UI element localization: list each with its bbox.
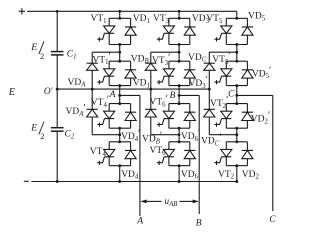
junction dots phase A bus xyxy=(118,10,121,183)
svg-text:VD2′: VD2′ xyxy=(251,111,270,126)
wire bottom DC rail (-) xyxy=(31,181,236,183)
wire cell frame VT2' phase C row3 xyxy=(226,103,247,105)
transistor VT4' xyxy=(97,104,115,129)
svg-text:VT2: VT2 xyxy=(218,170,235,181)
diode VD3 xyxy=(184,18,195,44)
svg-text:B: B xyxy=(196,219,202,229)
clamp diode VDA' xyxy=(87,89,98,135)
svg-text:VDA: VDA xyxy=(68,78,87,89)
transistor VT1 xyxy=(97,18,115,44)
wire cell frame VT4' phase A row3 xyxy=(109,103,130,105)
svg-text:VT4: VT4 xyxy=(90,147,107,158)
svg-text:VT2′: VT2′ xyxy=(210,95,228,110)
wire output line A vertical xyxy=(139,95,141,216)
svg-text:VDB: VDB xyxy=(131,54,149,65)
wire phase A bus segment rail to VT row1 xyxy=(119,11,121,18)
clamp diode VDA xyxy=(87,52,98,89)
wire output node B horizontal xyxy=(179,94,199,96)
svg-text:uAB: uAB xyxy=(164,197,177,208)
wire cell frame VT1 phase A row1 xyxy=(109,17,130,19)
svg-text:VT5: VT5 xyxy=(206,14,223,25)
svg-text:VDA′: VDA′ xyxy=(66,103,86,118)
svg-text:A: A xyxy=(109,90,116,100)
svg-text:VT1: VT1 xyxy=(91,14,107,25)
diode VD4 xyxy=(125,142,136,166)
svg-text:E: E xyxy=(30,43,37,53)
svg-text:VD2: VD2 xyxy=(242,170,260,181)
transistor VT2' xyxy=(214,104,232,129)
svg-text:VDB′: VDB′ xyxy=(142,131,162,146)
diode VD2' xyxy=(242,104,253,129)
transistor VT1' xyxy=(97,61,115,85)
junction dot left branch top rail xyxy=(56,10,59,13)
transistor VT3 xyxy=(157,18,175,44)
clamp diode VDC' xyxy=(204,89,215,135)
wire phase A bus segment row1 to row2 xyxy=(119,45,121,62)
diode VD6' xyxy=(184,104,195,129)
svg-text:C1: C1 xyxy=(67,50,77,61)
wire neutral line from node O' to clamp branches xyxy=(57,88,209,90)
svg-text:VD6′: VD6′ xyxy=(181,128,200,143)
junction dot left branch bottom rail xyxy=(56,180,59,183)
wire cell frame VT4 phase A row4 xyxy=(109,141,130,143)
svg-text:VDC: VDC xyxy=(188,53,207,64)
wire phase B bus segment row4 to bottom rail xyxy=(178,166,180,182)
svg-text:VT3: VT3 xyxy=(153,14,170,25)
wire clamp connection lower phase B xyxy=(151,134,179,136)
svg-text:2: 2 xyxy=(40,51,44,61)
svg-text:VD6: VD6 xyxy=(181,170,199,181)
svg-text:VD1: VD1 xyxy=(133,14,150,25)
svg-text:VD3′: VD3′ xyxy=(189,75,208,90)
dimension arrow for u_AB (left) xyxy=(146,200,161,202)
svg-text:VD4: VD4 xyxy=(121,170,139,181)
wire phase B bus segment row3 to row4 xyxy=(178,128,180,142)
wire output line C vertical xyxy=(272,95,274,211)
wire clamp connection upper phase A xyxy=(92,51,120,53)
diode VD5 xyxy=(242,18,253,44)
clamp diode VDB' xyxy=(145,89,156,135)
wire phase C bus segment rail to VT row1 xyxy=(236,11,238,18)
wire cell frame VT1' phase A row2 xyxy=(109,60,130,62)
svg-text:E: E xyxy=(8,87,15,98)
svg-text:2: 2 xyxy=(40,131,44,141)
capacitor C2 xyxy=(51,127,64,129)
diode VD2 xyxy=(242,142,253,166)
transistor VT5' xyxy=(214,61,232,85)
wire cell frame VT3' phase B row2 xyxy=(169,60,190,62)
minus terminal of DC source E xyxy=(24,180,29,182)
wire cell frame VT6 phase B row4 xyxy=(169,141,190,143)
dimension arrow for u_AB (right) xyxy=(179,200,193,202)
junction dots phase C bus xyxy=(235,17,238,183)
wire phase C bus segment row2 to row3 xyxy=(236,86,238,104)
svg-text:VT3′: VT3′ xyxy=(152,52,170,67)
wire cell frame VT6' phase B row3 xyxy=(169,103,190,105)
diode VD1' xyxy=(125,61,136,85)
wire phase C bus segment row4 to bottom rail xyxy=(236,166,238,182)
svg-text:A: A xyxy=(136,217,143,227)
transistor VT5 xyxy=(214,18,232,44)
wire cell frame VT5 phase C row1 xyxy=(226,17,247,19)
svg-text:VT6: VT6 xyxy=(150,146,167,157)
wire clamp connection upper phase B xyxy=(151,51,179,53)
transistor VT2 xyxy=(214,142,232,166)
junction dots on neutral O' line xyxy=(56,88,211,91)
svg-text:VT6′: VT6′ xyxy=(150,94,168,109)
transistor VT6' xyxy=(157,104,175,129)
wire cell frame VT5' phase C row2 xyxy=(226,60,247,62)
wire clamp connection lower phase A xyxy=(92,134,120,136)
wire phase B bus segment row2 to row3 xyxy=(178,86,180,104)
svg-text:C: C xyxy=(269,215,276,225)
svg-text:VT1′: VT1′ xyxy=(92,52,110,67)
wire clamp connection lower phase C xyxy=(209,134,237,136)
wire output line B vertical xyxy=(198,95,200,214)
svg-text:O′: O′ xyxy=(44,87,54,97)
svg-text:VT5′: VT5′ xyxy=(212,51,230,66)
wire phase B bus segment row1 to row2 xyxy=(178,45,180,62)
transistor VT4 xyxy=(97,142,115,166)
svg-text:C: C xyxy=(228,90,235,100)
svg-text:VD5: VD5 xyxy=(248,12,266,23)
wire output node C horizontal xyxy=(237,94,273,96)
transistor VT6 xyxy=(157,142,175,166)
wire phase C bus segment row3 to row4 xyxy=(236,128,238,142)
wire phase A bus segment row4 to bottom rail xyxy=(119,166,121,182)
wire phase A bus segment row2 to row3 xyxy=(119,86,121,104)
wire phase B bus segment rail to VT row1 xyxy=(178,11,180,18)
svg-text:VD4′: VD4′ xyxy=(121,128,140,143)
svg-text:E: E xyxy=(30,123,37,133)
wire left DC branch upper segment xyxy=(56,11,58,51)
wire cell frame VT3 phase B row1 xyxy=(169,17,190,19)
svg-text:B: B xyxy=(170,91,176,101)
capacitor C1 xyxy=(51,51,64,53)
diode VD6 xyxy=(184,142,195,166)
svg-text:C2: C2 xyxy=(65,130,75,141)
wire phase C bus segment row1 to row2 xyxy=(236,45,238,62)
diode VD5' xyxy=(242,61,253,85)
plus terminal of DC source E xyxy=(19,10,25,12)
clamp diode VDC xyxy=(204,52,215,89)
diode VD3' xyxy=(184,61,195,85)
transistor VT3' xyxy=(157,61,175,85)
wire phase A bus segment row3 to row4 xyxy=(119,128,121,142)
wire output node A horizontal xyxy=(120,94,140,96)
wire left DC branch middle segment xyxy=(56,55,58,128)
svg-text:VD5′: VD5′ xyxy=(252,66,271,81)
clamp diode VDB xyxy=(145,52,156,89)
wire cell frame VT2 phase C row4 xyxy=(226,141,247,143)
wire left DC branch lower segment xyxy=(56,131,58,181)
diode VD1 xyxy=(125,18,136,44)
svg-text:VT4′: VT4′ xyxy=(91,94,109,109)
wire top DC rail (+) xyxy=(27,10,237,12)
junction dots phase B bus xyxy=(178,10,181,183)
wire clamp connection upper phase C xyxy=(209,51,237,53)
diode VD4' xyxy=(125,104,136,129)
